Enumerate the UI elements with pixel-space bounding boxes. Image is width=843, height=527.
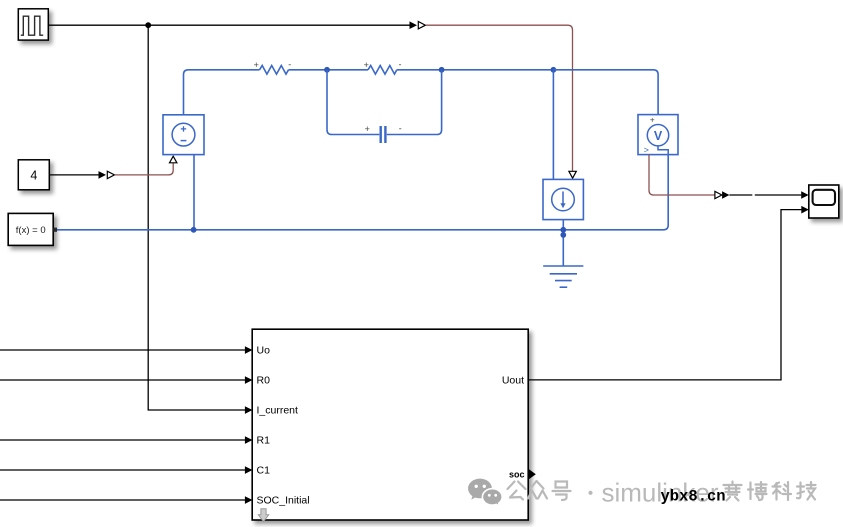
svg-text:+: + bbox=[650, 114, 655, 124]
wire: Uout to scope input 2 (black) bbox=[528, 210, 801, 380]
svg-text:V: V bbox=[654, 129, 663, 143]
wire: constant output (black) bbox=[50, 174, 99, 176]
node: junction on rail bbox=[560, 227, 566, 233]
constant block value 4 bbox=[18, 160, 49, 190]
wire: input SOC_Initial (black) bbox=[0, 499, 245, 501]
bo bbox=[748, 482, 767, 500]
node B: junction right of R1 bbox=[439, 67, 445, 73]
wire: physical signal to current source control (brown) bbox=[426, 25, 573, 171]
wire: input R1 (black) bbox=[0, 439, 245, 441]
wire: voltage sensor bottom to rail (blue) bbox=[663, 155, 668, 230]
wire: R0 to node A (blue) bbox=[289, 69, 369, 71]
wire: rail to voltage sensor corner (blue) bbox=[553, 70, 658, 115]
node: junction above current source bbox=[551, 67, 557, 73]
wire: arrowhead into PS converter bbox=[410, 21, 418, 29]
svg-text:+: + bbox=[365, 124, 370, 134]
port: soc output chevron bbox=[529, 469, 536, 479]
wire: voltage source top to rail (blue) bbox=[184, 70, 260, 115]
resistor R0 bbox=[254, 60, 292, 75]
wire: open triangle into current source top bbox=[569, 171, 576, 178]
port arrows into subsystem bbox=[245, 346, 253, 504]
svg-text:4: 4 bbox=[30, 168, 37, 182]
svg-text:f(x) = 0: f(x) = 0 bbox=[16, 225, 46, 236]
gray chinese chars bbox=[508, 481, 816, 501]
controlled voltage source block bbox=[163, 115, 204, 155]
svg-text:-: - bbox=[288, 60, 291, 70]
svg-text:>: > bbox=[644, 145, 649, 155]
svg-text:+: + bbox=[254, 60, 259, 70]
svg-text:I_current: I_current bbox=[257, 405, 299, 417]
svg-text:ybx8.cn: ybx8.cn bbox=[661, 488, 726, 506]
svg-text:Uo: Uo bbox=[257, 345, 271, 357]
node: junction below rail bbox=[560, 232, 566, 238]
pulse generator block bbox=[18, 9, 48, 40]
wire: input R0 (black) bbox=[0, 379, 245, 381]
sai bbox=[724, 482, 742, 501]
ke bbox=[773, 482, 792, 500]
wire: open triangle port marker bbox=[107, 171, 114, 178]
svg-text:C1: C1 bbox=[257, 465, 271, 477]
wire: input C1 (black) bbox=[0, 469, 245, 471]
node A: junction left of R1 bbox=[324, 67, 330, 73]
svg-text:-: - bbox=[399, 124, 402, 134]
wire: R1 to node B (blue) bbox=[397, 69, 554, 71]
svg-text:SOC_Initial: SOC_Initial bbox=[257, 495, 310, 507]
svg-text:-: - bbox=[399, 60, 402, 70]
wire: open triangle into voltage source bottom bbox=[170, 156, 177, 163]
gong bbox=[508, 482, 526, 500]
wire: input Uo (black) bbox=[0, 349, 245, 351]
wire: current source bottom to rail and ground stem (blue) bbox=[562, 220, 564, 266]
zhong bbox=[528, 481, 547, 499]
svg-text:soc: soc bbox=[509, 469, 525, 479]
controlled current source block bbox=[543, 179, 583, 219]
ground electrical reference bbox=[543, 266, 583, 287]
wire: physical signal to voltage source control (brown) bbox=[115, 163, 173, 175]
ji bbox=[797, 482, 816, 500]
wire: voltage sensor output physical signal (brown) bbox=[649, 155, 715, 195]
watermark bbox=[468, 478, 815, 508]
wire: branch down to I_current input bbox=[148, 25, 245, 410]
subsystem open badge (gray down arrow) bbox=[258, 509, 268, 522]
node: junction of pulse signal bbox=[145, 22, 151, 28]
wire: arrowhead bbox=[99, 171, 107, 179]
svg-text:+: + bbox=[364, 60, 369, 70]
capacitor C1 bbox=[327, 70, 442, 143]
dot separator bbox=[588, 491, 592, 495]
hao bbox=[553, 482, 571, 501]
subsystem block bbox=[252, 329, 528, 520]
wire: arrowhead (black) bbox=[722, 191, 729, 199]
resistor R1 bbox=[364, 60, 402, 75]
node: junction at bottom rail bbox=[191, 227, 197, 233]
wire: bottom electrical rail (blue) bbox=[57, 229, 664, 231]
wire: pulse generator output (black signal) bbox=[49, 24, 411, 26]
voltage sensor block bbox=[638, 114, 678, 154]
wire: open triangle port marker bbox=[418, 22, 425, 29]
wire: node B down to current source (blue) bbox=[552, 70, 554, 180]
svg-text:R0: R0 bbox=[257, 375, 271, 387]
wire: voltage source bottom to rail (blue) bbox=[193, 155, 195, 230]
svg-text:R1: R1 bbox=[257, 435, 271, 447]
wire: open triangle port marker bbox=[715, 191, 722, 198]
wire: black signal to scope input 1 bbox=[729, 194, 801, 196]
solver configuration block f(x)=0 bbox=[8, 213, 57, 245]
wechat icon bbox=[468, 479, 502, 507]
scope block bbox=[809, 185, 839, 218]
svg-text:Uout: Uout bbox=[502, 375, 524, 387]
